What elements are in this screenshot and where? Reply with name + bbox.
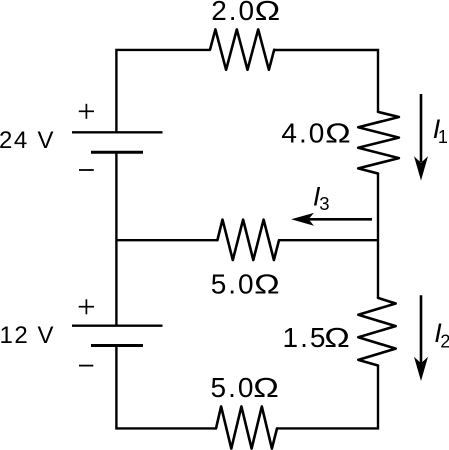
battery 24 V negative plate [91,151,143,154]
wire top-left vertical (battery 24V top to top-left corner) [116,50,210,132]
plus sign 12 V [79,306,94,308]
svg-text:3: 3 [319,193,329,214]
svg-text:5.0: 5.0 [211,372,256,403]
svg-text:5.0: 5.0 [211,268,256,299]
svg-text:12: 12 [0,322,29,349]
resistor 2.0 ohm [210,29,274,69]
minus sign 24 V [79,169,94,171]
current arrow I2 [420,295,423,363]
resistor 1.5 ohm [358,298,395,366]
wire right middle (4.0 ohm to 1.5 ohm) [377,174,379,298]
wire left middle (24V battery to 12V battery through junction) [115,152,117,326]
resistor 5.0 ohm middle [217,220,279,260]
wire bottom right [277,366,378,429]
plus sign 24 V [79,110,94,112]
svg-text:24: 24 [0,127,29,154]
svg-text:Ω: Ω [254,268,280,299]
current arrow I1 [420,94,423,162]
battery 24 V positive plate [72,131,163,133]
svg-text:V: V [38,322,54,349]
svg-text:1: 1 [438,127,448,147]
resistor 5.0 ohm bottom [216,406,277,448]
wire left bottom (12V battery to bottom-left corner) [116,346,216,429]
wire middle right [279,239,378,241]
svg-text:1.5: 1.5 [283,322,328,353]
wire top-right [274,50,378,112]
resistor 4.0 ohm [358,112,399,174]
current arrow I3 [308,218,372,221]
svg-text:Ω: Ω [324,322,350,353]
svg-text:2: 2 [440,332,449,352]
svg-text:2.0: 2.0 [211,0,256,26]
svg-text:Ω: Ω [325,118,351,149]
battery 12 V negative plate [91,344,143,347]
battery 12 V positive plate [72,325,163,327]
svg-text:4.0: 4.0 [281,118,326,149]
svg-text:Ω: Ω [253,372,279,403]
wire middle left [116,239,217,241]
svg-text:V: V [38,127,54,154]
svg-text:Ω: Ω [255,0,281,26]
minus sign 12 V [79,365,93,367]
